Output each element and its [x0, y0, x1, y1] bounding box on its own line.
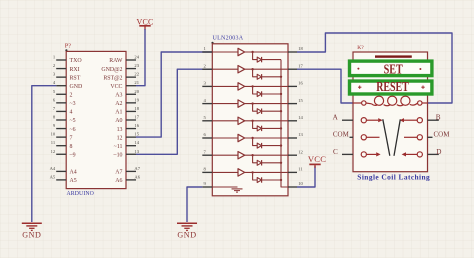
svg-text:16: 16	[298, 81, 303, 86]
pin 15 12 (right)	[117, 132, 140, 142]
pin 3 input (left)	[202, 81, 212, 87]
svg-text:14: 14	[298, 115, 303, 120]
pin COM (right middle)	[404, 131, 450, 140]
svg-text:~11: ~11	[114, 144, 123, 150]
pin 22 RST@2 (right)	[103, 72, 139, 82]
svg-text:15: 15	[298, 98, 303, 103]
svg-text:GND@2: GND@2	[101, 67, 122, 73]
connector P? ARDUINO	[50, 43, 141, 197]
pin 6 input (left)	[202, 132, 212, 138]
svg-text:A6: A6	[115, 178, 122, 184]
wire U? pin 18 to K? coil right	[297, 33, 452, 103]
svg-text:A: A	[333, 114, 339, 122]
driver channel 1 (buffer + flyback diode)	[212, 48, 288, 62]
svg-text:19: 19	[134, 97, 139, 102]
power port VCC (top)	[136, 18, 153, 31]
pin A7 (right)	[115, 166, 140, 176]
svg-text:~10: ~10	[113, 152, 122, 158]
svg-text:~6: ~6	[70, 127, 76, 133]
wire P? pin 15 (12) to U? pin 1	[136, 52, 212, 137]
power port VCC (middle)	[308, 154, 326, 168]
svg-text:16: 16	[134, 123, 139, 128]
pin 18 A1 (right)	[115, 106, 139, 116]
driver channel 3 (buffer + flyback diode)	[212, 83, 288, 97]
wire U? pin 9 to ground	[187, 187, 202, 222]
svg-text:Single Coil Latching: Single Coil Latching	[357, 173, 430, 182]
pin 13 ~10 (right)	[113, 149, 139, 159]
pin 5 2 (left)	[53, 89, 73, 99]
pin 12 ~9 (left)	[51, 149, 76, 159]
wire U? pin 10 COM to VCC	[297, 166, 315, 187]
svg-text:11: 11	[51, 140, 56, 145]
pin A6 (right)	[115, 174, 140, 184]
body	[212, 44, 288, 196]
pin 14 ~11 (right)	[114, 140, 140, 150]
svg-text:17: 17	[134, 114, 139, 119]
pin 3 RST (left)	[53, 72, 81, 82]
svg-text:13: 13	[134, 149, 139, 154]
svg-text:10: 10	[51, 132, 56, 137]
wire P? pin 13 (~10) to U? pin 2	[136, 69, 212, 154]
svg-text:A7: A7	[134, 166, 140, 171]
svg-text:A1: A1	[115, 110, 122, 116]
pin 15 output (right)	[288, 98, 303, 104]
svg-text:18: 18	[134, 106, 139, 111]
svg-text:12: 12	[51, 149, 56, 154]
pin 9 E (left)	[202, 181, 212, 187]
pin 19 A2 (right)	[115, 97, 139, 107]
svg-text:D: D	[436, 148, 441, 156]
origin dot	[211, 42, 213, 44]
svg-text:P?: P?	[65, 43, 72, 50]
svg-text:COM: COM	[434, 131, 451, 139]
svg-text:12: 12	[298, 149, 303, 154]
wire VCC to P? pin 21	[136, 29, 145, 86]
svg-text:RAW: RAW	[109, 58, 123, 64]
pin 8 ~5 (left)	[53, 114, 76, 124]
pin 12 output (right)	[288, 149, 303, 155]
svg-text:A4: A4	[70, 170, 77, 176]
pin 1 input (left)	[202, 46, 212, 52]
svg-text:A6: A6	[134, 174, 140, 179]
svg-text:~5: ~5	[70, 118, 76, 124]
svg-text:18: 18	[298, 46, 303, 51]
svg-text:24: 24	[134, 55, 139, 60]
svg-text:RST@2: RST@2	[103, 75, 122, 81]
wire P? pin 4 GND to ground	[32, 86, 56, 222]
svg-text:B: B	[436, 114, 441, 122]
pin A4 (left)	[50, 166, 77, 176]
pin 11 output (right)	[288, 167, 303, 173]
svg-text:23: 23	[134, 63, 139, 68]
SET button overlay	[350, 61, 432, 77]
svg-text:SET: SET	[384, 62, 403, 77]
svg-text:VCC: VCC	[308, 154, 326, 164]
driver channel 8 (buffer + flyback diode)	[212, 169, 288, 183]
pin 7 input (left)	[202, 149, 212, 155]
svg-text:GND: GND	[22, 231, 41, 240]
pin 4 input (left)	[202, 98, 212, 104]
pin 1 TXO (left)	[53, 55, 82, 65]
body	[353, 52, 428, 172]
pin B (right top)	[400, 114, 441, 123]
svg-text:A0: A0	[115, 118, 122, 124]
svg-text:GND: GND	[177, 231, 196, 240]
switch blade left	[383, 119, 390, 156]
driver channel 4 (buffer + flyback diode)	[212, 100, 288, 114]
pin 21 VCC (right)	[110, 80, 139, 90]
ic U? ULN2003A	[202, 35, 303, 196]
svg-text:13: 13	[117, 127, 123, 133]
relay K? Single Coil Latching	[333, 45, 451, 182]
svg-text:7: 7	[70, 135, 73, 141]
pin COM (left middle)	[333, 131, 380, 140]
svg-text:~3: ~3	[70, 101, 76, 107]
svg-text:A7: A7	[115, 170, 122, 176]
svg-text:RXI: RXI	[70, 67, 80, 73]
svg-text:RST: RST	[70, 75, 81, 81]
svg-text:C: C	[333, 148, 338, 156]
svg-text:2: 2	[70, 92, 73, 98]
svg-text:VCC: VCC	[110, 84, 122, 90]
pin C (left bottom)	[333, 148, 381, 157]
svg-text:10: 10	[298, 181, 303, 186]
svg-text:13: 13	[298, 132, 303, 137]
svg-text:11: 11	[298, 167, 303, 172]
pin 11 8 (left)	[51, 140, 73, 150]
svg-text:17: 17	[298, 63, 303, 68]
svg-text:A2: A2	[115, 101, 122, 107]
common cathode rail to pin 10	[281, 60, 288, 187]
svg-text:8: 8	[70, 144, 73, 150]
power ground GND (left)	[22, 223, 42, 239]
svg-text:TXO: TXO	[70, 58, 83, 64]
pin 14 output (right)	[288, 115, 303, 121]
power ground GND (middle)	[177, 223, 197, 239]
svg-text:K?: K?	[357, 45, 364, 51]
svg-text:A3: A3	[115, 92, 122, 98]
svg-text:14: 14	[134, 140, 139, 145]
wire U? pin 17 to K? coil left	[297, 69, 353, 103]
coil	[353, 96, 428, 106]
pin 23 GND@2 (right)	[101, 63, 139, 73]
pin 2 input (left)	[202, 63, 212, 69]
driver channel 5 (buffer + flyback diode)	[212, 117, 288, 131]
driver channel 2 (buffer + flyback diode)	[212, 66, 288, 80]
svg-text:A4: A4	[50, 166, 56, 171]
pin A5 (left)	[50, 174, 77, 184]
pin 10 7 (left)	[51, 132, 73, 142]
switch blade right	[394, 119, 400, 156]
pin 24 RAW (right)	[109, 55, 139, 65]
origin dot	[65, 49, 67, 51]
pin 17 output (right)	[288, 63, 303, 69]
RESET button overlay	[350, 79, 432, 94]
driver channel 6 (buffer + flyback diode)	[212, 134, 288, 148]
pin 16 output (right)	[288, 81, 303, 87]
svg-text:21: 21	[134, 80, 139, 85]
svg-text:ULN2003A: ULN2003A	[213, 35, 244, 41]
pin 16 13 (right)	[117, 123, 140, 133]
svg-text:22: 22	[134, 72, 139, 77]
pin A (left top)	[333, 114, 383, 123]
svg-text:RESET: RESET	[376, 79, 409, 94]
svg-text:GND: GND	[70, 84, 84, 90]
svg-text:COM: COM	[333, 131, 350, 139]
body	[66, 51, 126, 188]
pin 13 output (right)	[288, 132, 303, 138]
svg-text:15: 15	[134, 132, 139, 137]
svg-text:20: 20	[134, 89, 139, 94]
pin 8 input (left)	[202, 167, 212, 173]
pin 20 A3 (right)	[115, 89, 139, 99]
svg-text:~9: ~9	[70, 152, 76, 158]
pin 7 4 (left)	[53, 106, 73, 116]
svg-text:A5: A5	[50, 174, 56, 179]
pin 6 ~3 (left)	[53, 97, 76, 107]
pin 2 RXI (left)	[53, 63, 80, 73]
svg-text:ARDUINO: ARDUINO	[67, 191, 94, 197]
driver channel 7 (buffer + flyback diode)	[212, 152, 288, 166]
pin D (right bottom)	[402, 148, 442, 157]
svg-text:A5: A5	[70, 178, 77, 184]
svg-text:12: 12	[117, 135, 123, 141]
pin 10 COM (right)	[288, 181, 303, 187]
pin 5 input (left)	[202, 115, 212, 121]
pin 17 A0 (right)	[115, 114, 139, 124]
pin 9 emitter ground mark	[212, 187, 242, 192]
top bar	[375, 55, 412, 57]
svg-text:4: 4	[70, 110, 73, 116]
pin 4 GND (left)	[53, 80, 83, 90]
pin 18 output (right)	[288, 46, 303, 52]
pin 9 ~6 (left)	[53, 123, 76, 133]
